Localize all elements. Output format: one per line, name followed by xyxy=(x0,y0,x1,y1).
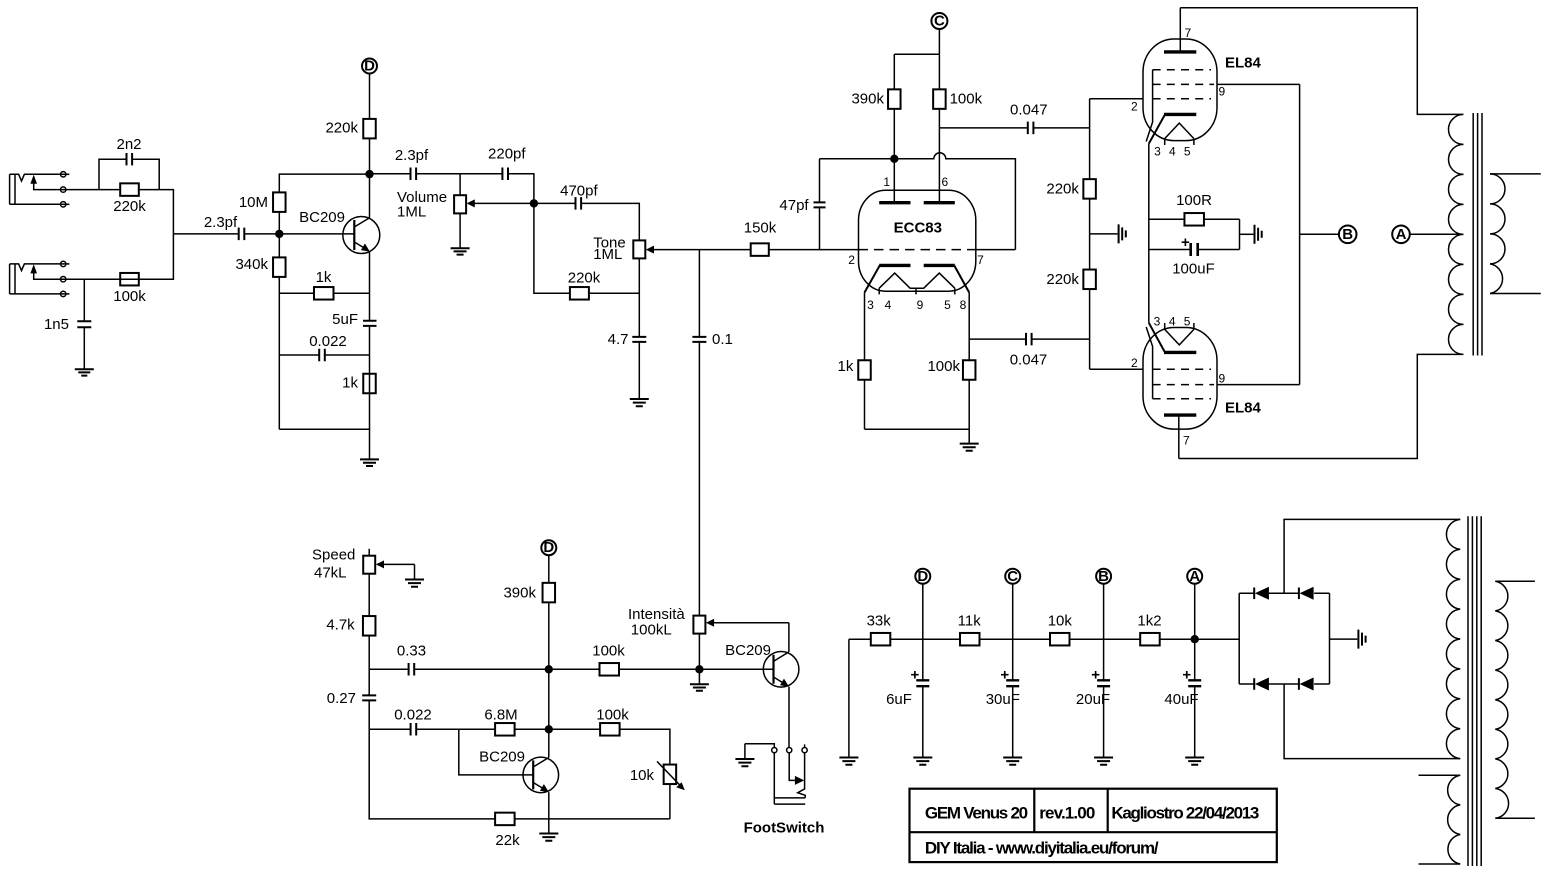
svg-text:BC209: BC209 xyxy=(299,209,345,226)
input jack J1 xyxy=(10,174,61,204)
svg-text:7: 7 xyxy=(1183,434,1190,448)
svg-text:7: 7 xyxy=(977,253,984,267)
V1 g3 internal connection xyxy=(1146,70,1152,142)
transformer T2 HV winding xyxy=(1446,519,1460,758)
svg-text:0.27: 0.27 xyxy=(327,690,356,707)
U1 pin labels 2 and 7 xyxy=(848,253,984,267)
svg-text:4.7: 4.7 xyxy=(608,331,629,348)
wire bottom rail xyxy=(1179,354,1463,458)
svg-text:30uF: 30uF xyxy=(986,691,1020,708)
capacitor 0.022 (tremolo) xyxy=(369,707,459,736)
node A (supply) xyxy=(1187,568,1202,585)
capacitor 0.1 xyxy=(692,250,732,616)
svg-text:9: 9 xyxy=(1219,372,1226,386)
svg-text:9: 9 xyxy=(1219,85,1226,99)
wire osc verticals xyxy=(548,669,550,729)
svg-text:Speed: Speed xyxy=(312,547,355,564)
svg-text:100k: 100k xyxy=(113,288,146,305)
svg-text:D: D xyxy=(917,568,928,585)
svg-text:Intensità: Intensità xyxy=(628,606,685,623)
resistor 1k (emitter) xyxy=(342,374,376,394)
transistor Q1 BC209 xyxy=(279,209,380,254)
svg-text:1k: 1k xyxy=(316,269,332,286)
potentiometer Speed 47kL xyxy=(312,547,415,582)
svg-text:47pf: 47pf xyxy=(779,197,809,214)
svg-text:100uF: 100uF xyxy=(1172,261,1215,278)
svg-text:0.047: 0.047 xyxy=(1010,352,1048,369)
capacitor 6uF xyxy=(886,584,929,758)
resistor 22k xyxy=(369,729,670,849)
node C (driver supply) xyxy=(931,13,947,30)
resistor 220k (upper grid leak) xyxy=(1046,99,1095,270)
svg-text:220k: 220k xyxy=(1046,181,1079,198)
U1 plate bars xyxy=(879,159,955,203)
V2 heater xyxy=(1165,323,1194,345)
node: intensita junction xyxy=(695,665,703,673)
wire A to center tap xyxy=(1410,233,1463,235)
resistor 10k xyxy=(1013,613,1104,646)
ground (1n5) xyxy=(75,369,94,375)
J2 sleeve terminal xyxy=(61,291,70,296)
wire C to split xyxy=(894,29,939,89)
capacitor 100uF (cathode bypass) xyxy=(1149,219,1240,277)
resistor 1k2 xyxy=(1104,613,1240,646)
svg-text:+: + xyxy=(1181,234,1190,251)
tube U1 ECC83 xyxy=(859,190,976,291)
potentiometer Tone 1ML xyxy=(593,235,654,294)
U1 cathode bars xyxy=(879,264,955,267)
capacitor 0.33 xyxy=(369,643,549,676)
capacitor 220pf xyxy=(460,146,534,204)
wire grid to upper EL84 xyxy=(1090,98,1143,100)
wire plate1 to grid2 with hop over pin6 xyxy=(820,153,1016,250)
svg-text:220k: 220k xyxy=(568,270,601,287)
ground (intensita) xyxy=(690,669,709,690)
capacitor 0.27 xyxy=(327,669,376,729)
wire D to 220k xyxy=(369,74,371,119)
U1 bottom pin labels 3 4 9 5 8 xyxy=(867,298,967,312)
svg-text:1n5: 1n5 xyxy=(44,316,69,333)
svg-text:100k: 100k xyxy=(592,643,625,660)
potentiometer Intensita 100kL xyxy=(628,606,789,669)
ground (cathode network, rotated) xyxy=(1240,225,1262,244)
svg-text:340k: 340k xyxy=(235,256,268,273)
svg-text:8: 8 xyxy=(960,298,967,312)
resistor 6.8M xyxy=(459,707,549,736)
svg-text:100k: 100k xyxy=(950,91,983,108)
svg-text:2: 2 xyxy=(1131,356,1138,370)
capacitor 47pf xyxy=(779,159,825,250)
svg-text:33k: 33k xyxy=(867,613,892,630)
V2 grid dashed rows xyxy=(1153,369,1214,399)
ground (Volume) xyxy=(451,248,470,254)
node: plate 1 junction xyxy=(890,155,898,163)
svg-text:+: + xyxy=(911,667,920,684)
resistor 340k xyxy=(235,234,285,429)
transistor Q3 BC209 (switch) xyxy=(699,642,798,687)
resistor 33k xyxy=(849,613,923,646)
node C (supply) xyxy=(1005,568,1020,585)
node: volume wiper junction xyxy=(530,199,538,207)
resistor 1k (cathode 1) xyxy=(838,293,871,430)
node B (supply) xyxy=(1096,568,1111,585)
wire Q3 collector to wiper xyxy=(788,623,790,652)
wire bridge AC top xyxy=(1284,519,1460,593)
variable resistor 10k xyxy=(630,761,685,819)
diode D4 (bottom right) xyxy=(1299,678,1314,691)
resistor 390k xyxy=(851,89,900,158)
svg-text:0.1: 0.1 xyxy=(712,331,733,348)
node B (to supply) xyxy=(1339,226,1357,244)
capacitor 470pf xyxy=(534,183,639,241)
svg-text:2n2: 2n2 xyxy=(116,136,141,153)
U1 grid dashed line xyxy=(859,249,976,251)
node: base of Q1 xyxy=(275,230,283,238)
svg-text:3: 3 xyxy=(1154,145,1161,159)
wire to mixing node xyxy=(159,190,173,234)
svg-text:4: 4 xyxy=(885,298,892,312)
capacitor 0.047 (upper coupling) xyxy=(939,102,1089,135)
wire collector to node xyxy=(369,174,371,217)
svg-text:1: 1 xyxy=(883,175,890,189)
svg-text:10k: 10k xyxy=(1048,613,1073,630)
capacitor 2.3pf (coupling) xyxy=(370,147,461,180)
resistor 100k (input) xyxy=(113,273,146,305)
svg-text:220k: 220k xyxy=(113,198,146,215)
svg-text:150k: 150k xyxy=(744,220,777,237)
resistor 1k (feedback) xyxy=(279,269,369,300)
svg-text:100k: 100k xyxy=(927,358,960,375)
wire bridge AC bottom xyxy=(1284,684,1460,759)
svg-text:3: 3 xyxy=(1154,314,1161,328)
ground (FootSwitch) xyxy=(735,744,754,767)
wire emitter down xyxy=(369,252,371,430)
svg-text:C: C xyxy=(934,13,945,30)
U1 heater xyxy=(879,273,955,294)
node: collector junction xyxy=(365,170,373,178)
node: tremolo osc upper junction xyxy=(545,665,553,673)
wire grid to lower EL84 xyxy=(1090,368,1143,370)
U1 cathode exits xyxy=(865,265,970,292)
resistor 4.7k xyxy=(326,574,375,670)
svg-text:1ML: 1ML xyxy=(593,246,622,263)
svg-text:11k: 11k xyxy=(958,613,982,630)
resistor 100R (cathode bias) xyxy=(1149,192,1240,226)
svg-text:BC209: BC209 xyxy=(725,642,771,659)
ground (ECC83 cathodes) xyxy=(960,444,979,451)
transformer T2 heater winding xyxy=(1419,775,1461,864)
svg-text:FootSwitch: FootSwitch xyxy=(744,820,825,837)
svg-text:B: B xyxy=(1342,226,1353,243)
transformer T1 secondary xyxy=(1490,174,1541,294)
svg-text:470pf: 470pf xyxy=(560,183,598,200)
ground (30uF) xyxy=(1003,758,1022,765)
V1 cathode xyxy=(1149,114,1197,143)
svg-text:B: B xyxy=(1098,568,1109,585)
wire Q3 emitter down xyxy=(788,687,790,748)
svg-text:0.047: 0.047 xyxy=(1010,102,1048,119)
tube V1 EL84 (upper) xyxy=(1143,39,1262,141)
ground (bridge, rotated) xyxy=(1330,630,1366,649)
node D (tremolo supply) xyxy=(541,539,556,556)
wire pin9 bus to node B xyxy=(1300,84,1339,384)
svg-text:6.8M: 6.8M xyxy=(484,707,517,724)
node: tremolo osc lower junction xyxy=(545,725,553,733)
capacitor 30uF xyxy=(986,584,1020,758)
transformer T1 primary xyxy=(1449,114,1464,354)
svg-text:5: 5 xyxy=(1184,314,1191,328)
diode D2 (top right) xyxy=(1299,587,1314,600)
wire V1 cathode down xyxy=(1148,144,1150,323)
transformer T2 core xyxy=(1468,516,1481,866)
svg-text:GEM Venus 20: GEM Venus 20 xyxy=(925,804,1028,823)
ground (grid leaks, rotated) xyxy=(1090,224,1126,243)
svg-text:2: 2 xyxy=(1131,100,1138,114)
resistor 10M xyxy=(239,192,286,234)
resistor 220k (tone network) xyxy=(534,203,639,299)
V1 plate and pin 7 xyxy=(1164,8,1196,52)
svg-text:A: A xyxy=(1396,226,1407,243)
resistor 100k (cathode 2) xyxy=(927,293,975,430)
svg-text:DIY Italia - www.diyitalia.eu/: DIY Italia - www.diyitalia.eu/forum/ xyxy=(925,838,1159,857)
diode D3 (bottom left) xyxy=(1254,678,1269,691)
wire xyxy=(139,234,174,279)
wire emitter network bottom xyxy=(279,429,369,459)
svg-text:7: 7 xyxy=(1185,26,1192,40)
wire collector node to 10M xyxy=(279,174,369,192)
title block frame xyxy=(910,789,1277,862)
resistor 220k (lower grid leak) xyxy=(1046,270,1095,370)
svg-text:0.022: 0.022 xyxy=(309,333,347,350)
svg-text:EL84: EL84 xyxy=(1225,55,1262,72)
resistor 100k (plate 2 load) xyxy=(933,54,982,201)
FootSwitch xyxy=(744,744,825,837)
svg-text:0.33: 0.33 xyxy=(397,643,426,660)
svg-text:+: + xyxy=(1091,667,1100,684)
V2 plate and pin 7 xyxy=(1164,415,1196,458)
capacitor 4.7 xyxy=(608,293,647,399)
transformer T2 secondary winding xyxy=(1495,581,1535,818)
svg-text:+: + xyxy=(1182,667,1191,684)
svg-text:1k2: 1k2 xyxy=(1137,613,1161,630)
V2 cathode xyxy=(1149,323,1197,353)
ground (6uF) xyxy=(913,758,932,765)
wire Q2 emitter to ground xyxy=(548,792,550,833)
svg-text:100kL: 100kL xyxy=(631,622,672,639)
svg-text:D: D xyxy=(364,58,375,75)
svg-text:Kagliostro 22/04/2013: Kagliostro 22/04/2013 xyxy=(1111,804,1259,823)
wire top rail xyxy=(1180,8,1462,115)
diode D1 (top left) xyxy=(1254,587,1269,600)
wire Q2 collector xyxy=(548,729,550,757)
svg-text:9: 9 xyxy=(917,298,924,312)
transformer T1 core xyxy=(1473,113,1482,356)
svg-text:22k: 22k xyxy=(495,832,520,849)
svg-text:20uF: 20uF xyxy=(1076,691,1110,708)
svg-text:BC209: BC209 xyxy=(479,749,525,766)
capacitor 5uF xyxy=(332,311,376,328)
resistor 220k (input) xyxy=(99,183,159,215)
node: A rail junction xyxy=(1191,584,1199,644)
resistor 100k (tremolo lower) xyxy=(549,707,670,765)
svg-text:220k: 220k xyxy=(1046,271,1079,288)
J1 ring terminal xyxy=(61,187,100,192)
V1 pin 9 wire xyxy=(1217,84,1300,98)
svg-text:220pf: 220pf xyxy=(488,146,526,163)
V1 pin labels 3 4 5 xyxy=(1154,145,1191,159)
capacitor 0.022 (first stage) xyxy=(279,333,369,361)
J2 ring terminal xyxy=(61,277,121,282)
ground (Q2 emitter) xyxy=(539,834,558,841)
capacitor 2.3pf (input) xyxy=(173,214,279,240)
node D (supply) xyxy=(915,568,930,585)
node D (first stage supply) xyxy=(362,58,377,75)
svg-text:2: 2 xyxy=(848,253,855,267)
node A (center tap) xyxy=(1392,226,1410,244)
svg-text:ECC83: ECC83 xyxy=(894,220,942,237)
svg-text:6uF: 6uF xyxy=(886,691,912,708)
resistor 11k xyxy=(923,613,1013,646)
capacitor 0.047 (lower coupling) xyxy=(969,333,1089,369)
U1 pin labels 1 and 6 xyxy=(883,175,948,189)
svg-text:390k: 390k xyxy=(503,585,536,602)
capacitor 2n2 xyxy=(99,136,159,190)
svg-text:4.7k: 4.7k xyxy=(326,617,355,634)
resistor 100k (tremolo upper) xyxy=(549,643,700,676)
svg-text:5uF: 5uF xyxy=(332,311,358,328)
bridge rectifier frame xyxy=(1239,593,1329,684)
V2 pin 9 wire xyxy=(1217,372,1300,386)
svg-text:A: A xyxy=(1189,568,1200,585)
ground (supply left end) xyxy=(839,639,858,765)
ground (tone cap) xyxy=(630,399,649,406)
svg-text:220k: 220k xyxy=(325,120,358,137)
svg-text:3: 3 xyxy=(867,298,874,312)
ground (40uF) xyxy=(1185,758,1204,765)
J2 tip terminal xyxy=(61,261,70,266)
resistor 220k (collector load) xyxy=(325,119,375,174)
svg-text:10k: 10k xyxy=(630,767,655,784)
svg-text:0.022: 0.022 xyxy=(394,707,432,724)
svg-text:6: 6 xyxy=(942,175,949,189)
svg-text:47kL: 47kL xyxy=(314,565,347,582)
svg-text:2.3pf: 2.3pf xyxy=(395,147,429,164)
tube V2 EL84 (lower) xyxy=(1143,328,1262,430)
svg-text:1k: 1k xyxy=(342,375,358,392)
wire cathode bottom xyxy=(865,429,970,443)
svg-text:C: C xyxy=(1007,568,1018,585)
ground (Speed wiper) xyxy=(405,580,424,587)
svg-text:EL84: EL84 xyxy=(1225,400,1262,417)
potentiometer Volume 1ML xyxy=(397,174,534,248)
V2 pin labels 3 4 5 xyxy=(1154,314,1191,328)
V2 g3 internal connection xyxy=(1146,327,1152,399)
svg-text:5: 5 xyxy=(1184,145,1191,159)
transistor Q2 BC209 (tremolo) xyxy=(459,729,559,792)
J1 sleeve terminal xyxy=(61,202,70,207)
svg-text:rev.1.00: rev.1.00 xyxy=(1039,804,1095,823)
svg-text:1ML: 1ML xyxy=(397,204,426,221)
input jack J2 xyxy=(10,264,61,294)
resistor 150k xyxy=(654,220,859,256)
svg-text:100k: 100k xyxy=(596,707,629,724)
svg-text:5: 5 xyxy=(944,298,951,312)
svg-text:100R: 100R xyxy=(1176,192,1212,209)
svg-text:40uF: 40uF xyxy=(1164,691,1198,708)
svg-text:390k: 390k xyxy=(851,91,884,108)
ground (20uF) xyxy=(1094,758,1113,765)
V1 heater xyxy=(1165,123,1194,145)
svg-text:10M: 10M xyxy=(239,194,268,211)
svg-text:4: 4 xyxy=(1169,145,1176,159)
capacitor 40uF xyxy=(1164,639,1201,757)
svg-text:1k: 1k xyxy=(838,358,854,375)
ground (first stage) xyxy=(360,459,379,466)
resistor 390k (tremolo) xyxy=(503,555,555,669)
svg-text:D: D xyxy=(543,539,554,556)
svg-text:2.3pf: 2.3pf xyxy=(204,214,238,231)
J1 tip terminal xyxy=(61,172,70,177)
svg-text:+: + xyxy=(1000,667,1009,684)
svg-text:4: 4 xyxy=(1169,314,1176,328)
capacitor 1n5 xyxy=(44,279,91,369)
V1 grid dashed rows xyxy=(1153,70,1214,99)
capacitor 20uF xyxy=(1076,584,1110,758)
